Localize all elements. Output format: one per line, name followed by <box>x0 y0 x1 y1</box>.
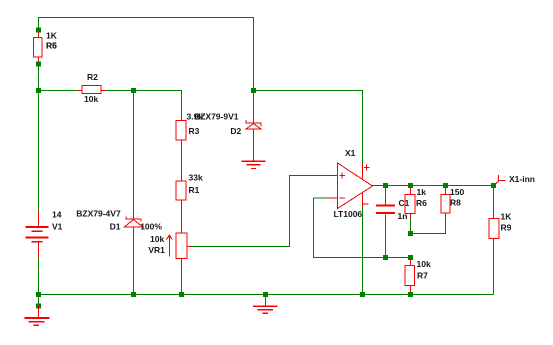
svg-text:33k: 33k <box>189 173 203 183</box>
svg-text:R2: R2 <box>87 72 98 82</box>
svg-text:X1-inn: X1-inn <box>509 174 535 184</box>
resistor R3 <box>176 116 186 147</box>
resistor R7 <box>405 260 415 293</box>
node left ground pin <box>36 304 41 309</box>
node bottom rail left junction <box>36 292 41 297</box>
diode D1 BZX79-4V7 <box>125 212 143 232</box>
node R9 top junction <box>491 183 496 188</box>
resistor R8 <box>441 188 450 220</box>
wire op-amp V- to bottom rail <box>362 207 364 295</box>
node R7 top junction <box>408 255 413 260</box>
svg-text:X1: X1 <box>345 148 356 158</box>
svg-text:BZX79-4V7: BZX79-4V7 <box>76 209 121 219</box>
wire op-amp output rail <box>373 185 494 187</box>
svg-text:10k: 10k <box>150 234 164 244</box>
wire C1 bottom <box>385 221 387 258</box>
node bottom rail R7 junction <box>408 292 413 297</box>
svg-text:V1: V1 <box>52 222 63 232</box>
resistor R9 <box>489 211 499 247</box>
wire R9 top <box>493 186 495 212</box>
svg-text:R6: R6 <box>416 198 427 208</box>
wire C1 top <box>385 186 387 199</box>
wire top rail <box>38 17 254 19</box>
svg-text:D1: D1 <box>110 222 121 232</box>
wire D1 column lower <box>133 231 135 295</box>
svg-text:R6: R6 <box>46 40 57 50</box>
svg-text:14: 14 <box>52 209 62 219</box>
svg-text:VR1: VR1 <box>148 245 165 255</box>
svg-text:LT1006: LT1006 <box>334 209 363 219</box>
wire D2 to ground <box>253 140 255 151</box>
wire left column R5 to battery <box>38 61 40 211</box>
svg-text:D2: D2 <box>230 126 241 136</box>
node bottom rail VR1 junction <box>179 292 184 297</box>
svg-text:R1: R1 <box>189 185 200 195</box>
svg-text:R7: R7 <box>417 271 428 281</box>
svg-text:10k: 10k <box>417 259 431 269</box>
wire R3 to R1 <box>181 147 183 178</box>
wire R2 rail right <box>105 91 182 117</box>
node bottom rail op-amp junction <box>360 292 365 297</box>
node D1 junction at R2 rail <box>131 88 136 93</box>
svg-text:R9: R9 <box>501 223 512 233</box>
node R5 bottom pin <box>36 62 41 67</box>
svg-text:R8: R8 <box>450 198 461 208</box>
resistor R1 <box>176 177 186 211</box>
wire VR1 wiper to op-amp plus input <box>191 176 327 247</box>
node C1 top junction <box>383 183 388 188</box>
wire D1 column upper <box>133 91 135 213</box>
resistor R2 <box>78 86 106 94</box>
terminal X1-inn <box>495 175 506 185</box>
wire battery to bottom rail <box>38 257 40 295</box>
wire bottom rail <box>39 294 494 296</box>
svg-text:C1: C1 <box>399 198 410 208</box>
wire left column upper <box>38 17 40 33</box>
svg-text:1K: 1K <box>46 31 58 41</box>
node bottom rail ground junction <box>263 292 268 297</box>
wire R6 R8 link <box>411 220 446 234</box>
svg-text:R3: R3 <box>189 126 200 136</box>
svg-text:1n: 1n <box>398 211 408 221</box>
wire feedback to op-amp minus input <box>314 198 411 258</box>
resistor R6 <box>405 188 415 219</box>
battery V1 <box>26 211 49 258</box>
node R6 R8 bottom junction <box>408 231 413 236</box>
wire R1 to VR1 <box>181 210 183 230</box>
node bottom rail D1 junction <box>131 292 136 297</box>
ground bottom left <box>25 306 50 326</box>
svg-text:150: 150 <box>450 187 464 197</box>
svg-text:1k: 1k <box>417 187 427 197</box>
wire R2 rail left <box>39 90 79 92</box>
svg-text:10k: 10k <box>84 94 98 104</box>
ground bottom middle <box>253 295 278 314</box>
svg-text:100%: 100% <box>140 222 162 232</box>
capacitor C1 <box>376 198 395 222</box>
resistor R5 <box>34 33 43 63</box>
wire VR1 to bottom rail <box>181 268 183 295</box>
node R6 top junction <box>408 183 413 188</box>
wire R9 bottom <box>493 246 495 295</box>
wire left ground link <box>38 295 40 307</box>
diode D2 BZX79-9V1 <box>246 120 261 140</box>
potentiometer VR1 <box>167 230 192 268</box>
node D2 junction at power rail <box>251 88 256 93</box>
node R5 top pin <box>36 28 41 33</box>
node C1 bottom junction <box>383 255 388 260</box>
svg-text:1K: 1K <box>501 212 513 222</box>
wire power rail to op-amp <box>254 91 363 164</box>
wire D2 column <box>253 17 255 121</box>
svg-text:BZX79-9V1: BZX79-9V1 <box>194 112 239 122</box>
node R8 top junction <box>443 183 448 188</box>
node left junction at R2 rail <box>36 88 41 93</box>
op-amp U1 LT1006 <box>327 163 373 209</box>
wire R6 bottom <box>410 218 412 234</box>
ground below D2 <box>242 150 266 170</box>
